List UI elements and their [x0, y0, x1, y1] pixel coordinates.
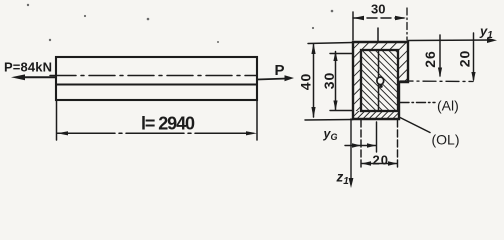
- svg-text:30: 30: [321, 72, 337, 90]
- svg-text:20: 20: [373, 153, 389, 168]
- svg-text:(Al): (Al): [437, 98, 459, 114]
- svg-text:40: 40: [298, 73, 314, 91]
- svg-text:26: 26: [422, 50, 438, 68]
- svg-text:(OL): (OL): [432, 132, 460, 148]
- svg-text:l= 2940: l= 2940: [141, 114, 195, 134]
- svg-text:P=84kN: P=84kN: [4, 60, 52, 75]
- svg-text:20: 20: [457, 50, 473, 68]
- svg-text:P: P: [275, 62, 285, 79]
- svg-text:30: 30: [371, 2, 386, 17]
